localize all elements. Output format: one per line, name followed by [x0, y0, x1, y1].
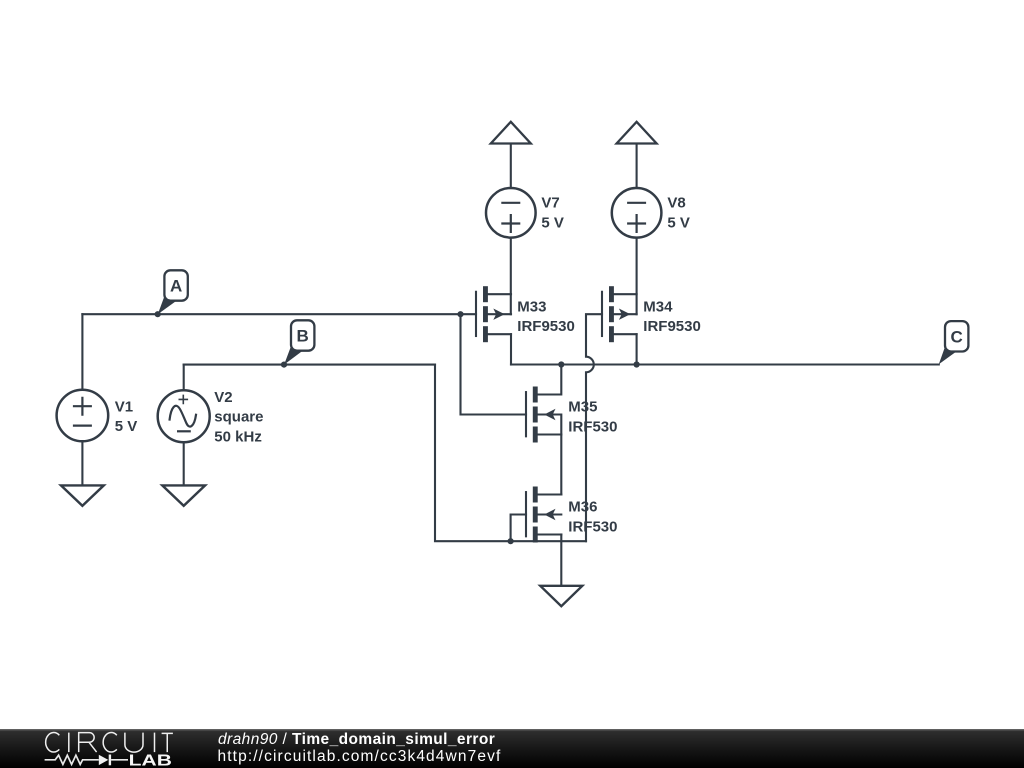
junction dot node B	[281, 362, 287, 368]
svg-text:C: C	[951, 327, 963, 346]
label M33 value	[517, 298, 575, 335]
wire net B branch to M36 gate	[511, 515, 526, 542]
wire V1 to ground	[81, 441, 83, 485]
voltage source V7	[486, 188, 536, 238]
footer bar	[0, 729, 1024, 768]
ground under M36	[540, 586, 582, 606]
wire V7 to power flag	[510, 144, 512, 189]
svg-text:square: square	[214, 409, 263, 426]
wire net B horizontal	[184, 364, 435, 366]
voltage source V8	[612, 188, 662, 238]
svg-text:LAB: LAB	[129, 753, 172, 768]
voltage source V1	[57, 390, 109, 442]
label V2 value	[214, 389, 263, 445]
junction dot M34 drain	[634, 361, 640, 367]
svg-text:5 V: 5 V	[667, 214, 690, 231]
svg-text:V8: V8	[667, 195, 685, 212]
wire M34 drain to rail	[636, 334, 638, 364]
svg-text:IRF9530: IRF9530	[517, 318, 575, 335]
junction dot M36 gate tap	[508, 538, 514, 544]
wire output rail to C	[511, 363, 939, 365]
wire V2 top riser	[183, 365, 185, 391]
nmos M36	[526, 487, 561, 543]
svg-text:IRF530: IRF530	[568, 518, 617, 535]
node label A	[158, 270, 188, 314]
svg-text:B: B	[297, 327, 309, 346]
wire V7 to M33 source	[510, 238, 512, 315]
wire net B vertical with hop to M34 gate	[586, 314, 602, 541]
power flag above V8	[617, 122, 657, 144]
label V8 value	[667, 195, 690, 232]
label V7 value	[541, 195, 564, 232]
svg-text:50 kHz: 50 kHz	[214, 428, 262, 445]
svg-text:5 V: 5 V	[541, 214, 564, 231]
label M36 value	[568, 499, 617, 536]
wire V8 to power flag	[636, 144, 638, 189]
svg-text:http://circuitlab.com/cc3k4d4w: http://circuitlab.com/cc3k4d4wn7evf	[218, 748, 502, 765]
wire net B down and across	[435, 365, 586, 542]
wire V2 to ground	[183, 442, 185, 485]
svg-text:M35: M35	[568, 399, 597, 416]
svg-text:V1: V1	[115, 398, 133, 415]
wire net A horizontal	[82, 313, 476, 315]
circuitlab logo diode symbol	[99, 755, 109, 765]
label M34 value	[643, 298, 701, 335]
junction dot node A	[155, 311, 161, 317]
ground under V2	[162, 485, 205, 505]
wire net A branch to M35 gate	[461, 314, 527, 414]
svg-text:M36: M36	[568, 499, 597, 516]
svg-text:drahn90 / Time_domain_simul_er: drahn90 / Time_domain_simul_error	[218, 731, 495, 748]
wire M33 drain to rail	[510, 334, 512, 364]
voltage source V2 (square function generator)	[158, 390, 210, 442]
wire V8 to M34 source	[636, 238, 638, 315]
svg-text:V2: V2	[214, 389, 232, 406]
ground under V1	[61, 485, 104, 505]
wire M36 source to ground	[560, 535, 562, 586]
svg-text:IRF9530: IRF9530	[643, 318, 701, 335]
label V1 value	[115, 398, 138, 435]
junction dot M33/M35 drains	[558, 361, 564, 367]
svg-text:V7: V7	[541, 195, 559, 212]
svg-text:5 V: 5 V	[115, 418, 138, 435]
label M35 value	[568, 399, 617, 436]
circuitlab logo resistor symbol	[45, 755, 99, 764]
svg-text:M33: M33	[517, 298, 546, 315]
junction dot A branch	[457, 311, 463, 317]
node label C	[939, 321, 969, 364]
svg-text:M34: M34	[643, 298, 673, 315]
pmos M33	[476, 286, 511, 342]
nmos M35	[526, 365, 561, 495]
power flag above V7	[491, 122, 531, 144]
svg-text:A: A	[170, 277, 182, 296]
pmos M34	[602, 286, 637, 342]
svg-text:IRF530: IRF530	[568, 418, 617, 435]
node label B	[284, 320, 314, 364]
wire V1 top riser	[81, 314, 83, 390]
circuitlab logo CIRCUIT lettering	[46, 733, 173, 753]
